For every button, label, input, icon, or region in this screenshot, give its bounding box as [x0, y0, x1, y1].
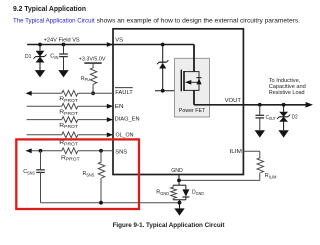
wire gate lead — [155, 90, 181, 92]
svg-text:RGND: RGND — [156, 190, 169, 196]
svg-text:SNS: SNS — [115, 149, 127, 155]
svg-text:D2: D2 — [292, 114, 298, 120]
ground (D2) — [278, 130, 288, 137]
wire +24V rail — [27, 44, 113, 46]
resistor RPROT (OL_ON) — [62, 132, 78, 138]
resistor RGND — [173, 184, 186, 186]
ground (CIN) — [58, 70, 68, 77]
node RPU-FAULT junction — [91, 91, 95, 95]
svg-text:GND: GND — [171, 168, 183, 174]
svg-text:The Typical Application Circui: The Typical Application Circuit — [13, 17, 95, 24]
node zener-gate junction — [161, 89, 165, 93]
svg-text:To Inductive,: To Inductive, — [269, 78, 301, 84]
wire GND pin — [178, 175, 180, 186]
wire SNS network bottom — [41, 202, 180, 204]
wire SNS line — [30, 150, 62, 152]
svg-text:VS: VS — [115, 37, 123, 43]
svg-text:shows an example of how to des: shows an example of how to design the ex… — [97, 17, 301, 24]
capacitor CIN — [62, 43, 66, 47]
diode D1 (TVS) — [38, 43, 42, 47]
resistor RPROT (SNS) — [62, 148, 78, 154]
capacitor COUT — [258, 103, 262, 107]
svg-text:CSNS: CSNS — [23, 169, 35, 175]
node SNS-CSNS junction — [39, 149, 43, 153]
node EN pin arrow — [107, 104, 113, 109]
red highlight annotation box — [16, 139, 139, 209]
wire VOUT — [194, 104, 307, 106]
wire to ground — [179, 200, 181, 209]
transistor Q1 power FET — [193, 45, 195, 72]
resistor RILIM — [243, 150, 259, 152]
svg-text:Capacitive and: Capacitive and — [269, 84, 306, 90]
svg-text:RPROT: RPROT — [61, 155, 80, 161]
svg-text:D1: D1 — [25, 54, 31, 60]
svg-text:VOUT: VOUT — [225, 98, 242, 104]
svg-text:ILIM: ILIM — [230, 149, 242, 155]
resistor RPROT (FAULT) — [62, 90, 78, 96]
diode D2 (TVS) — [282, 103, 286, 107]
svg-text:RSNS: RSNS — [83, 171, 95, 177]
svg-text:COUT: COUT — [266, 115, 276, 121]
svg-text:+3.3V/5.0V: +3.3V/5.0V — [79, 56, 106, 62]
ground (COUT) — [255, 130, 265, 137]
svg-text:Resistive Load: Resistive Load — [269, 90, 305, 96]
Power FET block box — [175, 58, 210, 117]
wire ILIM to GND — [179, 179, 260, 181]
node GND junction — [177, 179, 181, 183]
capacitor CSNS — [40, 151, 42, 170]
svg-text:RPROT: RPROT — [59, 110, 78, 116]
node VS pin arrow — [107, 42, 113, 47]
node load arrow — [306, 102, 313, 108]
node DIAG_EN pin arrow — [107, 117, 113, 122]
svg-text:+24V Field VS: +24V Field VS — [44, 38, 80, 44]
zener internal clamp — [162, 45, 164, 63]
op IC box U1 — [113, 29, 243, 175]
resistor RSNS — [100, 151, 102, 162]
wire DIAG_EN line — [27, 119, 62, 121]
svg-text:Figure 9-1. Typical Applicatio: Figure 9-1. Typical Application Circuit — [113, 222, 226, 229]
svg-text:9.2 Typical Application: 9.2 Typical Application — [13, 6, 86, 13]
svg-text:RPROT: RPROT — [59, 97, 78, 103]
svg-text:FAULT: FAULT — [115, 90, 133, 96]
resistor RPROT (DIAG_EN) — [62, 117, 78, 123]
svg-text:CIN: CIN — [50, 54, 58, 60]
svg-text:EN: EN — [115, 104, 124, 110]
node OL_ON pin arrow — [107, 132, 113, 137]
svg-text:RPROT: RPROT — [59, 123, 78, 129]
svg-text:DGND: DGND — [192, 190, 204, 196]
ground (D1) — [35, 70, 45, 77]
wire VS internal — [113, 44, 194, 46]
node SNS-RSNS junction — [99, 149, 103, 153]
svg-text:RPROT: RPROT — [59, 140, 78, 146]
svg-text:Power FET: Power FET — [179, 108, 206, 114]
wire OL_ON line — [27, 134, 62, 136]
wire FAULT line — [30, 92, 62, 94]
resistor RPROT (EN) — [62, 103, 78, 109]
node SNS-bottom-GND junction — [178, 201, 182, 205]
svg-text:RPU: RPU — [81, 76, 90, 82]
diode body (FET) — [196, 77, 201, 79]
diode DGND — [185, 185, 187, 189]
resistor RPU — [92, 63, 94, 68]
svg-text:RILIM: RILIM — [265, 173, 277, 179]
svg-text:DIAG_EN: DIAG_EN — [115, 117, 140, 123]
svg-text:OL_ON: OL_ON — [116, 132, 134, 138]
ground (main) — [174, 208, 184, 215]
wire EN line — [27, 105, 62, 107]
